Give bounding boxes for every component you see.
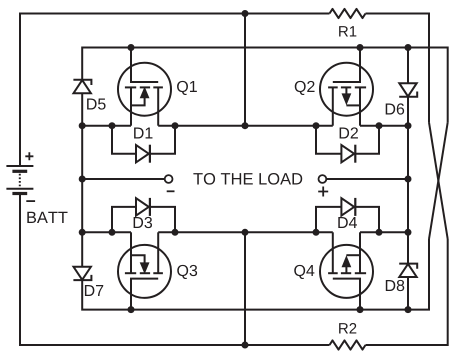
label R2 bbox=[339, 323, 356, 333]
wire: crossover diagonal (outer top to inner bottom) bbox=[429, 122, 448, 239]
node: upper mid rail / D5 column junction bbox=[79, 122, 86, 129]
node: D1 anode junction bbox=[109, 122, 116, 129]
wire: D2 loop right rise bbox=[356, 126, 379, 154]
diode D1 bbox=[136, 145, 149, 162]
diode D4 bbox=[341, 198, 354, 215]
transistor Q1 (N-channel MOSFET) bbox=[118, 63, 171, 116]
wire: D4 loop left rise bbox=[316, 207, 341, 232]
diode D6 bbox=[399, 92, 417, 97]
diode D5 bbox=[73, 80, 91, 85]
label Q1 bbox=[177, 81, 197, 95]
battery plus sign bbox=[25, 152, 33, 160]
wire: right inner column top stub above D6 bbox=[407, 48, 409, 84]
label D1 bbox=[134, 127, 152, 138]
wire: load rail right bbox=[326, 178, 408, 180]
label D2 bbox=[340, 127, 358, 138]
node: inner top rail / D6 column junction bbox=[405, 44, 412, 51]
node: inner bottom rail / D8 column junction bbox=[405, 306, 412, 313]
wire: D1 loop right rise bbox=[150, 126, 175, 154]
battery BATT long plate (lower +) bbox=[6, 188, 33, 190]
battery BATT long plate (top +) bbox=[6, 165, 33, 167]
node: D2 cathode junction bbox=[376, 122, 383, 129]
wire: upper mid rail left segment bbox=[82, 125, 131, 127]
wire: left inner column D5 to D7 bbox=[81, 93, 83, 267]
wire: load rail left bbox=[82, 178, 165, 180]
wire: lower mid rail left segment bbox=[82, 231, 131, 233]
wire: right outer drop to bottom rail bbox=[366, 239, 448, 345]
node: D4 cathode junction bbox=[376, 229, 383, 236]
diode D8 bbox=[399, 264, 417, 269]
wire: right inner column D6 to D8 bbox=[407, 97, 409, 264]
wire: inner top rail with D5 branch and corner down to crossover bbox=[82, 48, 448, 123]
wire: top rail from R1 to right corner, down to crossover bbox=[366, 14, 430, 123]
label D5 bbox=[87, 98, 105, 109]
label Q3 bbox=[177, 265, 197, 279]
load output terminal (positive) bbox=[319, 175, 327, 183]
wire: crossover diagonal (inner top to outer bottom) bbox=[429, 122, 448, 239]
label D3 bbox=[134, 217, 152, 228]
node: D4 anode junction bbox=[313, 229, 320, 236]
wire: upper mid rail right segment bbox=[360, 125, 408, 127]
node: Q4 drain junction bbox=[357, 306, 364, 313]
node: top rail / center column junction bbox=[242, 10, 249, 17]
node: lower mid rail / D8 column junction bbox=[405, 229, 412, 236]
resistor R2 bbox=[330, 340, 366, 349]
diode D2 bbox=[341, 145, 354, 162]
node: D1 cathode junction bbox=[172, 122, 179, 129]
resistor R1 bbox=[330, 9, 366, 18]
node: load rail left junction bbox=[79, 176, 86, 183]
label D8 bbox=[386, 280, 404, 291]
node: upper mid rail / D6 column junction bbox=[405, 122, 412, 129]
transistor Q4 (P-channel MOSFET) bbox=[320, 245, 373, 298]
node: D3 cathode junction bbox=[172, 229, 179, 236]
label TO THE LOAD bbox=[193, 173, 302, 185]
load plus sign bbox=[318, 187, 328, 197]
wire: lower mid rail right segment bbox=[360, 231, 408, 233]
load output terminal (negative) bbox=[165, 175, 173, 183]
wire: center column upper segment bbox=[244, 14, 246, 126]
label Q2 bbox=[295, 81, 315, 95]
wire: D3 loop right drop bbox=[150, 207, 175, 232]
label BATT bbox=[27, 212, 67, 223]
load minus sign bbox=[167, 190, 175, 192]
transistor Q3 (N-channel MOSFET) bbox=[118, 245, 171, 298]
battery minus sign bbox=[26, 200, 35, 202]
label D6 bbox=[386, 103, 404, 114]
node: Q1 drain junction bbox=[128, 44, 135, 51]
battery BATT short plate (upper -) bbox=[12, 170, 27, 173]
battery BATT dotted cell continuation bbox=[19, 174, 21, 187]
wire: D2 loop left drop bbox=[316, 126, 341, 154]
node: D2 anode junction bbox=[313, 122, 320, 129]
label R1 bbox=[339, 26, 356, 36]
node: lower mid rail / center column junction bbox=[242, 229, 249, 236]
node: Q3 drain junction bbox=[128, 306, 135, 313]
label D7 bbox=[85, 285, 103, 296]
wire: lower mid rail center segment bbox=[158, 231, 333, 233]
label Q4 bbox=[294, 265, 314, 279]
wire: D3 loop left rise bbox=[112, 207, 136, 232]
battery BATT short plate (bottom -) bbox=[12, 192, 27, 195]
wire: D4 loop right drop bbox=[356, 207, 379, 232]
node: Q2 drain junction bbox=[357, 44, 364, 51]
node: lower mid rail / D5 column junction bbox=[79, 229, 86, 236]
node: load rail right junction bbox=[405, 176, 412, 183]
node: D3 anode junction bbox=[109, 229, 116, 236]
wire: D1 loop left drop bbox=[112, 126, 136, 154]
wire: inner bottom rail from crossover corner to D7 column bbox=[82, 239, 429, 310]
wire: bottom rail from R2 to battery negative lead bbox=[20, 194, 330, 346]
diode D7 bbox=[73, 275, 91, 280]
transistor Q2 (P-channel MOSFET) bbox=[320, 63, 373, 116]
wire: battery positive lead up-left and top rail to R1 bbox=[20, 14, 330, 167]
diode D3 bbox=[136, 198, 149, 215]
node: bottom rail / center column junction bbox=[242, 342, 249, 349]
wire: upper mid rail center segment bbox=[158, 125, 333, 127]
wire: center column lower segment bbox=[244, 232, 246, 345]
label D4 bbox=[338, 217, 357, 228]
wire: right inner column stub below D8 bbox=[407, 277, 409, 310]
node: upper mid rail / center column junction bbox=[242, 122, 249, 129]
